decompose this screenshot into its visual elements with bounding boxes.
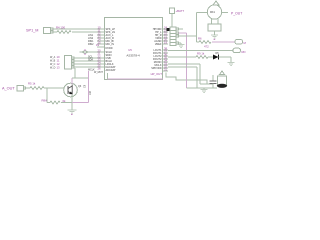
wire	[171, 14, 173, 28]
wire	[179, 28, 184, 30]
diode D5	[213, 52, 219, 60]
svg-text:MIC_IN: MIC_IN	[106, 43, 115, 46]
resistor R4	[56, 26, 71, 34]
power arrow	[213, 1, 219, 5]
ground	[211, 35, 218, 38]
connector SP1	[26, 28, 53, 34]
svg-text:RIN2: RIN2	[88, 43, 94, 46]
off-page RD	[233, 48, 246, 54]
wire	[74, 66, 104, 68]
svg-text:P_OUT: P_OUT	[231, 12, 242, 16]
wire	[222, 12, 228, 14]
svg-text:104: 104	[89, 90, 92, 95]
ground	[68, 110, 77, 113]
wire	[46, 88, 48, 103]
microphone MK1	[207, 5, 221, 35]
IC right pins top group	[153, 26, 168, 47]
node W_MOT	[107, 73, 109, 79]
resistor R9	[196, 52, 208, 59]
wire bottom bus	[108, 78, 164, 80]
svg-text:R9 1k: R9 1k	[197, 52, 205, 56]
wire	[74, 60, 104, 62]
wire	[179, 36, 197, 42]
svg-text:AS3578-4: AS3578-4	[126, 54, 140, 58]
wire	[53, 31, 104, 33]
wire	[74, 68, 76, 78]
wire	[168, 67, 197, 88]
svg-text:U5: U5	[128, 48, 132, 52]
svg-text:31: 31	[164, 68, 168, 72]
svg-text:472: 472	[204, 45, 209, 49]
wire row mic bias	[197, 41, 200, 43]
svg-text:DVDD: DVDD	[106, 47, 113, 50]
wire	[208, 57, 231, 62]
ground	[203, 88, 205, 89]
svg-text:R4 100: R4 100	[56, 26, 65, 30]
svg-text:MK1: MK1	[210, 11, 216, 14]
junction	[167, 28, 170, 31]
svg-text:13: 13	[57, 66, 61, 70]
wire	[197, 13, 208, 43]
connector J3	[170, 27, 179, 46]
resistor R8	[42, 99, 73, 105]
svg-text:W_MOT: W_MOT	[94, 71, 103, 74]
wire staircase	[166, 73, 207, 85]
pull-up box +3V	[170, 8, 185, 14]
wire row out	[168, 50, 233, 52]
wire	[53, 28, 104, 30]
wire	[72, 102, 89, 104]
svg-text:HP_OUT: HP_OUT	[151, 72, 163, 76]
IC U5	[105, 18, 163, 80]
IC right pins bottom group	[151, 47, 168, 77]
wire	[168, 56, 196, 58]
svg-text:R8A: R8A	[42, 99, 48, 103]
resistor R6	[198, 37, 211, 49]
svg-text:SPKVDD: SPKVDD	[151, 67, 161, 70]
svg-text:A_OUT: A_OUT	[2, 87, 15, 91]
wire	[74, 57, 104, 59]
wire	[71, 78, 73, 84]
ground	[179, 43, 182, 44]
speaker SP2	[187, 71, 228, 88]
svg-text:RD: RD	[242, 50, 246, 54]
svg-text:19: 19	[96, 43, 100, 47]
capacitor C9	[84, 71, 93, 103]
svg-text:VREF: VREF	[155, 43, 162, 46]
off-page MIC_PWR	[235, 40, 247, 46]
svg-text:+BATT: +BATT	[176, 9, 185, 13]
IC left pins bottom group	[80, 43, 117, 72]
svg-text:W_D: W_D	[50, 67, 56, 70]
svg-text:R5 1k: R5 1k	[28, 82, 36, 86]
wire	[168, 64, 200, 84]
node flag	[80, 51, 105, 53]
connector A_OUT	[2, 86, 26, 92]
transistor Q3	[64, 83, 82, 97]
resistor R5	[28, 82, 44, 90]
connector J2	[50, 55, 74, 70]
capacitor C11	[212, 75, 214, 81]
wire	[26, 87, 65, 89]
wire	[74, 63, 104, 65]
wire	[71, 94, 73, 110]
ground	[228, 63, 235, 66]
svg-text:ADCDAT: ADCDAT	[106, 69, 117, 72]
wire	[206, 80, 208, 84]
svg-text:SP1_M: SP1_M	[26, 29, 38, 33]
wire	[179, 33, 187, 88]
IC left pins top group	[88, 26, 115, 47]
svg-text:19: 19	[164, 41, 168, 45]
